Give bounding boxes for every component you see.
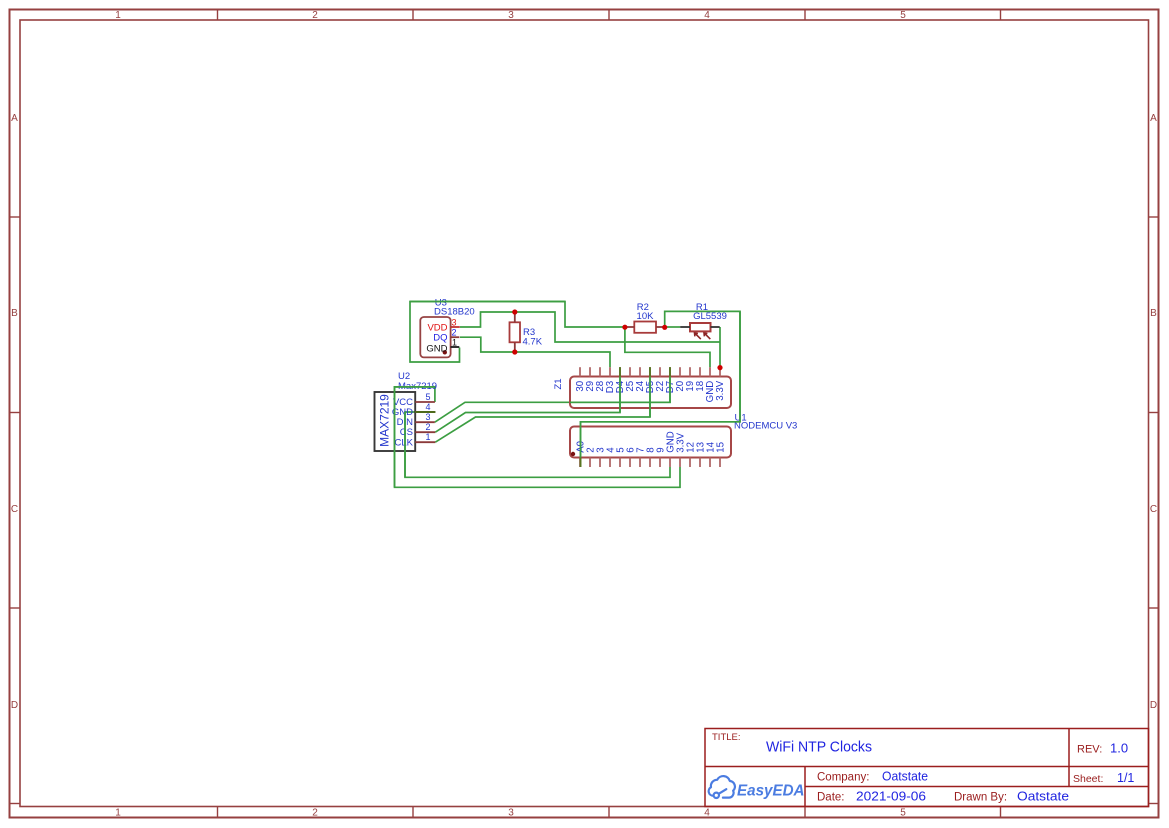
wire net DQ: U3 pin2 to R3 bottom to Z1 D3 xyxy=(460,337,610,367)
svg-text:5: 5 xyxy=(900,10,906,21)
connector Z1 body xyxy=(570,377,731,409)
junction dot Z1 3.3V pin xyxy=(717,365,722,370)
svg-text:B: B xyxy=(1150,308,1157,319)
op IC U3 DS18B20 body xyxy=(420,317,450,357)
EasyEDA logo cloud xyxy=(709,776,735,798)
svg-text:Company:: Company: xyxy=(817,772,869,784)
svg-text:3.3V: 3.3V xyxy=(715,380,726,400)
junction dot R3 top xyxy=(512,309,517,314)
svg-text:Date:: Date: xyxy=(817,792,845,804)
U2 pin 3 stub xyxy=(415,421,435,423)
ruler numbers top xyxy=(115,10,906,21)
svg-text:MAX7219: MAX7219 xyxy=(378,394,392,447)
wire overlay over Z1 labels D5 (net CLK) xyxy=(649,377,651,418)
svg-text:D: D xyxy=(11,700,18,711)
junction dot R3 bottom xyxy=(512,349,517,354)
svg-text:5: 5 xyxy=(425,392,430,402)
svg-text:3: 3 xyxy=(508,10,514,21)
svg-text:EasyEDA: EasyEDA xyxy=(737,783,805,800)
svg-text:2: 2 xyxy=(425,422,430,432)
wire overlay over Z1 labels D4 (net CS) xyxy=(619,377,621,413)
svg-text:1.0: 1.0 xyxy=(1110,741,1128,756)
svg-text:1: 1 xyxy=(425,432,430,442)
svg-text:1/1: 1/1 xyxy=(1117,771,1134,785)
wire net DIN: U2 pin3 to Z1 D7 xyxy=(435,367,670,422)
ruler ticks left xyxy=(10,217,21,804)
module U1 NODEMCU V3 body xyxy=(570,427,731,458)
R1 right stub xyxy=(711,326,720,328)
U3 pin 2 stub xyxy=(451,336,460,338)
wire overlay over Z1 labels D7 (net DIN) xyxy=(570,377,670,403)
wire overlay over U2 MAX7219 text (net GND2) xyxy=(404,412,406,477)
wire net 3.3V: R2 right to R1 left xyxy=(665,326,681,328)
ruler letters left xyxy=(11,113,18,711)
svg-text:CLK: CLK xyxy=(395,438,414,449)
U1 pins bottom row xyxy=(580,458,720,468)
svg-text:A: A xyxy=(11,113,18,124)
wire overlay over U3 label (net GND segment) xyxy=(410,301,565,303)
svg-text:4: 4 xyxy=(704,808,710,819)
R1 left stub xyxy=(680,326,690,328)
svg-text:Drawn By:: Drawn By: xyxy=(954,792,1007,804)
wire net A0: R2 right junction up over to U1 A0 xyxy=(581,311,741,467)
wire net CS: U2 pin2 to Z1 D4 xyxy=(435,367,620,432)
R2 left stub xyxy=(625,326,634,328)
wire net GND: U3 pin1 loop to R2 left xyxy=(410,302,625,363)
wire net VCC: U2 pin5 loop to U1 3.3V xyxy=(395,387,681,487)
Z1 pin D7 wire overlap xyxy=(669,367,671,376)
svg-text:10K: 10K xyxy=(637,311,655,322)
ruler numbers bottom xyxy=(115,808,906,819)
resistor R3 body xyxy=(510,322,521,342)
svg-text:C: C xyxy=(1150,504,1157,515)
svg-text:Oatstate: Oatstate xyxy=(882,770,928,784)
Z1 pin D4 wire overlap xyxy=(619,367,621,376)
svg-text:TITLE:: TITLE: xyxy=(712,732,741,743)
wire net GND2: U2 pin4 loop to U1 GND xyxy=(405,412,670,477)
ruler ticks top xyxy=(218,10,1001,21)
U3 origin dot xyxy=(443,350,447,354)
svg-text:2: 2 xyxy=(452,327,457,337)
svg-text:4: 4 xyxy=(425,402,430,412)
svg-text:B: B xyxy=(11,308,18,319)
U1 origin dot xyxy=(571,452,575,456)
svg-text:3: 3 xyxy=(425,412,430,422)
wire net 3.3V: U3 VDD to R3 top to Z1 3.3V xyxy=(460,312,720,342)
svg-text:4.7K: 4.7K xyxy=(523,337,543,348)
svg-text:15: 15 xyxy=(716,442,727,453)
svg-text:WiFi NTP Clocks: WiFi NTP Clocks xyxy=(766,740,872,756)
svg-text:3: 3 xyxy=(508,808,514,819)
junction dot R2 right xyxy=(662,325,667,330)
svg-text:2021-09-06: 2021-09-06 xyxy=(856,790,926,804)
R3 top stub xyxy=(514,312,516,322)
svg-text:NODEMCU V3: NODEMCU V3 xyxy=(734,421,797,432)
wire overlay over U2 MAX7219 text (net VCC) xyxy=(395,387,435,487)
ruler ticks bottom xyxy=(218,807,1001,818)
U3 pin 1 stub xyxy=(451,346,460,348)
wire overlay over U1 label A0 (net A0) xyxy=(581,311,741,457)
R1 light arrow 2 xyxy=(704,333,710,339)
Z1 pin D5 wire overlap xyxy=(649,367,651,376)
U1 pin labels xyxy=(576,431,727,453)
wire net CLK: U2 pin1 to Z1 D5 xyxy=(435,367,650,442)
resistor R2 body xyxy=(634,322,656,333)
svg-text:2: 2 xyxy=(312,10,318,21)
photoresistor R1 GL5539 body xyxy=(690,323,711,331)
ruler letters right xyxy=(1150,113,1157,711)
U2 pin 2 stub xyxy=(415,431,435,433)
wire net 3.3V: R1 right down to Z1 3.3V junction xyxy=(719,327,721,368)
svg-text:Z1: Z1 xyxy=(553,378,564,389)
svg-text:D: D xyxy=(1150,700,1157,711)
svg-text:1: 1 xyxy=(115,808,121,819)
svg-text:Sheet:: Sheet: xyxy=(1073,773,1103,785)
U1 pin A0 wire overlap xyxy=(580,458,582,468)
Z1 pin labels xyxy=(575,380,726,402)
U2 pin 4 stub xyxy=(415,411,435,413)
svg-text:C: C xyxy=(11,504,18,515)
wire net GND: R2 left down to Z1 GND pin xyxy=(625,327,710,367)
ruler ticks right xyxy=(1149,217,1159,804)
svg-text:REV:: REV: xyxy=(1077,744,1102,756)
svg-text:5: 5 xyxy=(900,808,906,819)
svg-text:Oatstate: Oatstate xyxy=(1017,790,1069,804)
U2 pin 1 stub xyxy=(415,441,435,443)
U2 pin 5 stub xyxy=(415,401,435,403)
svg-text:1: 1 xyxy=(452,338,457,348)
Z1 pins top row xyxy=(580,367,720,376)
svg-text:1: 1 xyxy=(115,10,121,21)
R2 right stub xyxy=(656,326,665,328)
svg-text:DQ: DQ xyxy=(433,333,447,344)
IC U2 MAX7219 body xyxy=(375,392,416,451)
svg-text:DS18B20: DS18B20 xyxy=(434,307,475,318)
junction dot R2 left xyxy=(622,325,627,330)
U2 pin 4 wire overlap xyxy=(415,411,435,413)
U3 pin 3 stub xyxy=(451,326,460,328)
svg-text:GL5539: GL5539 xyxy=(693,311,727,322)
svg-text:3: 3 xyxy=(452,318,457,328)
svg-text:2: 2 xyxy=(312,808,318,819)
R1 light arrow 1 xyxy=(695,333,701,339)
title block outline xyxy=(705,729,1149,807)
svg-text:4: 4 xyxy=(704,10,710,21)
R3 bottom stub xyxy=(514,342,516,352)
svg-text:GND: GND xyxy=(426,343,447,354)
svg-text:A: A xyxy=(1150,113,1157,124)
